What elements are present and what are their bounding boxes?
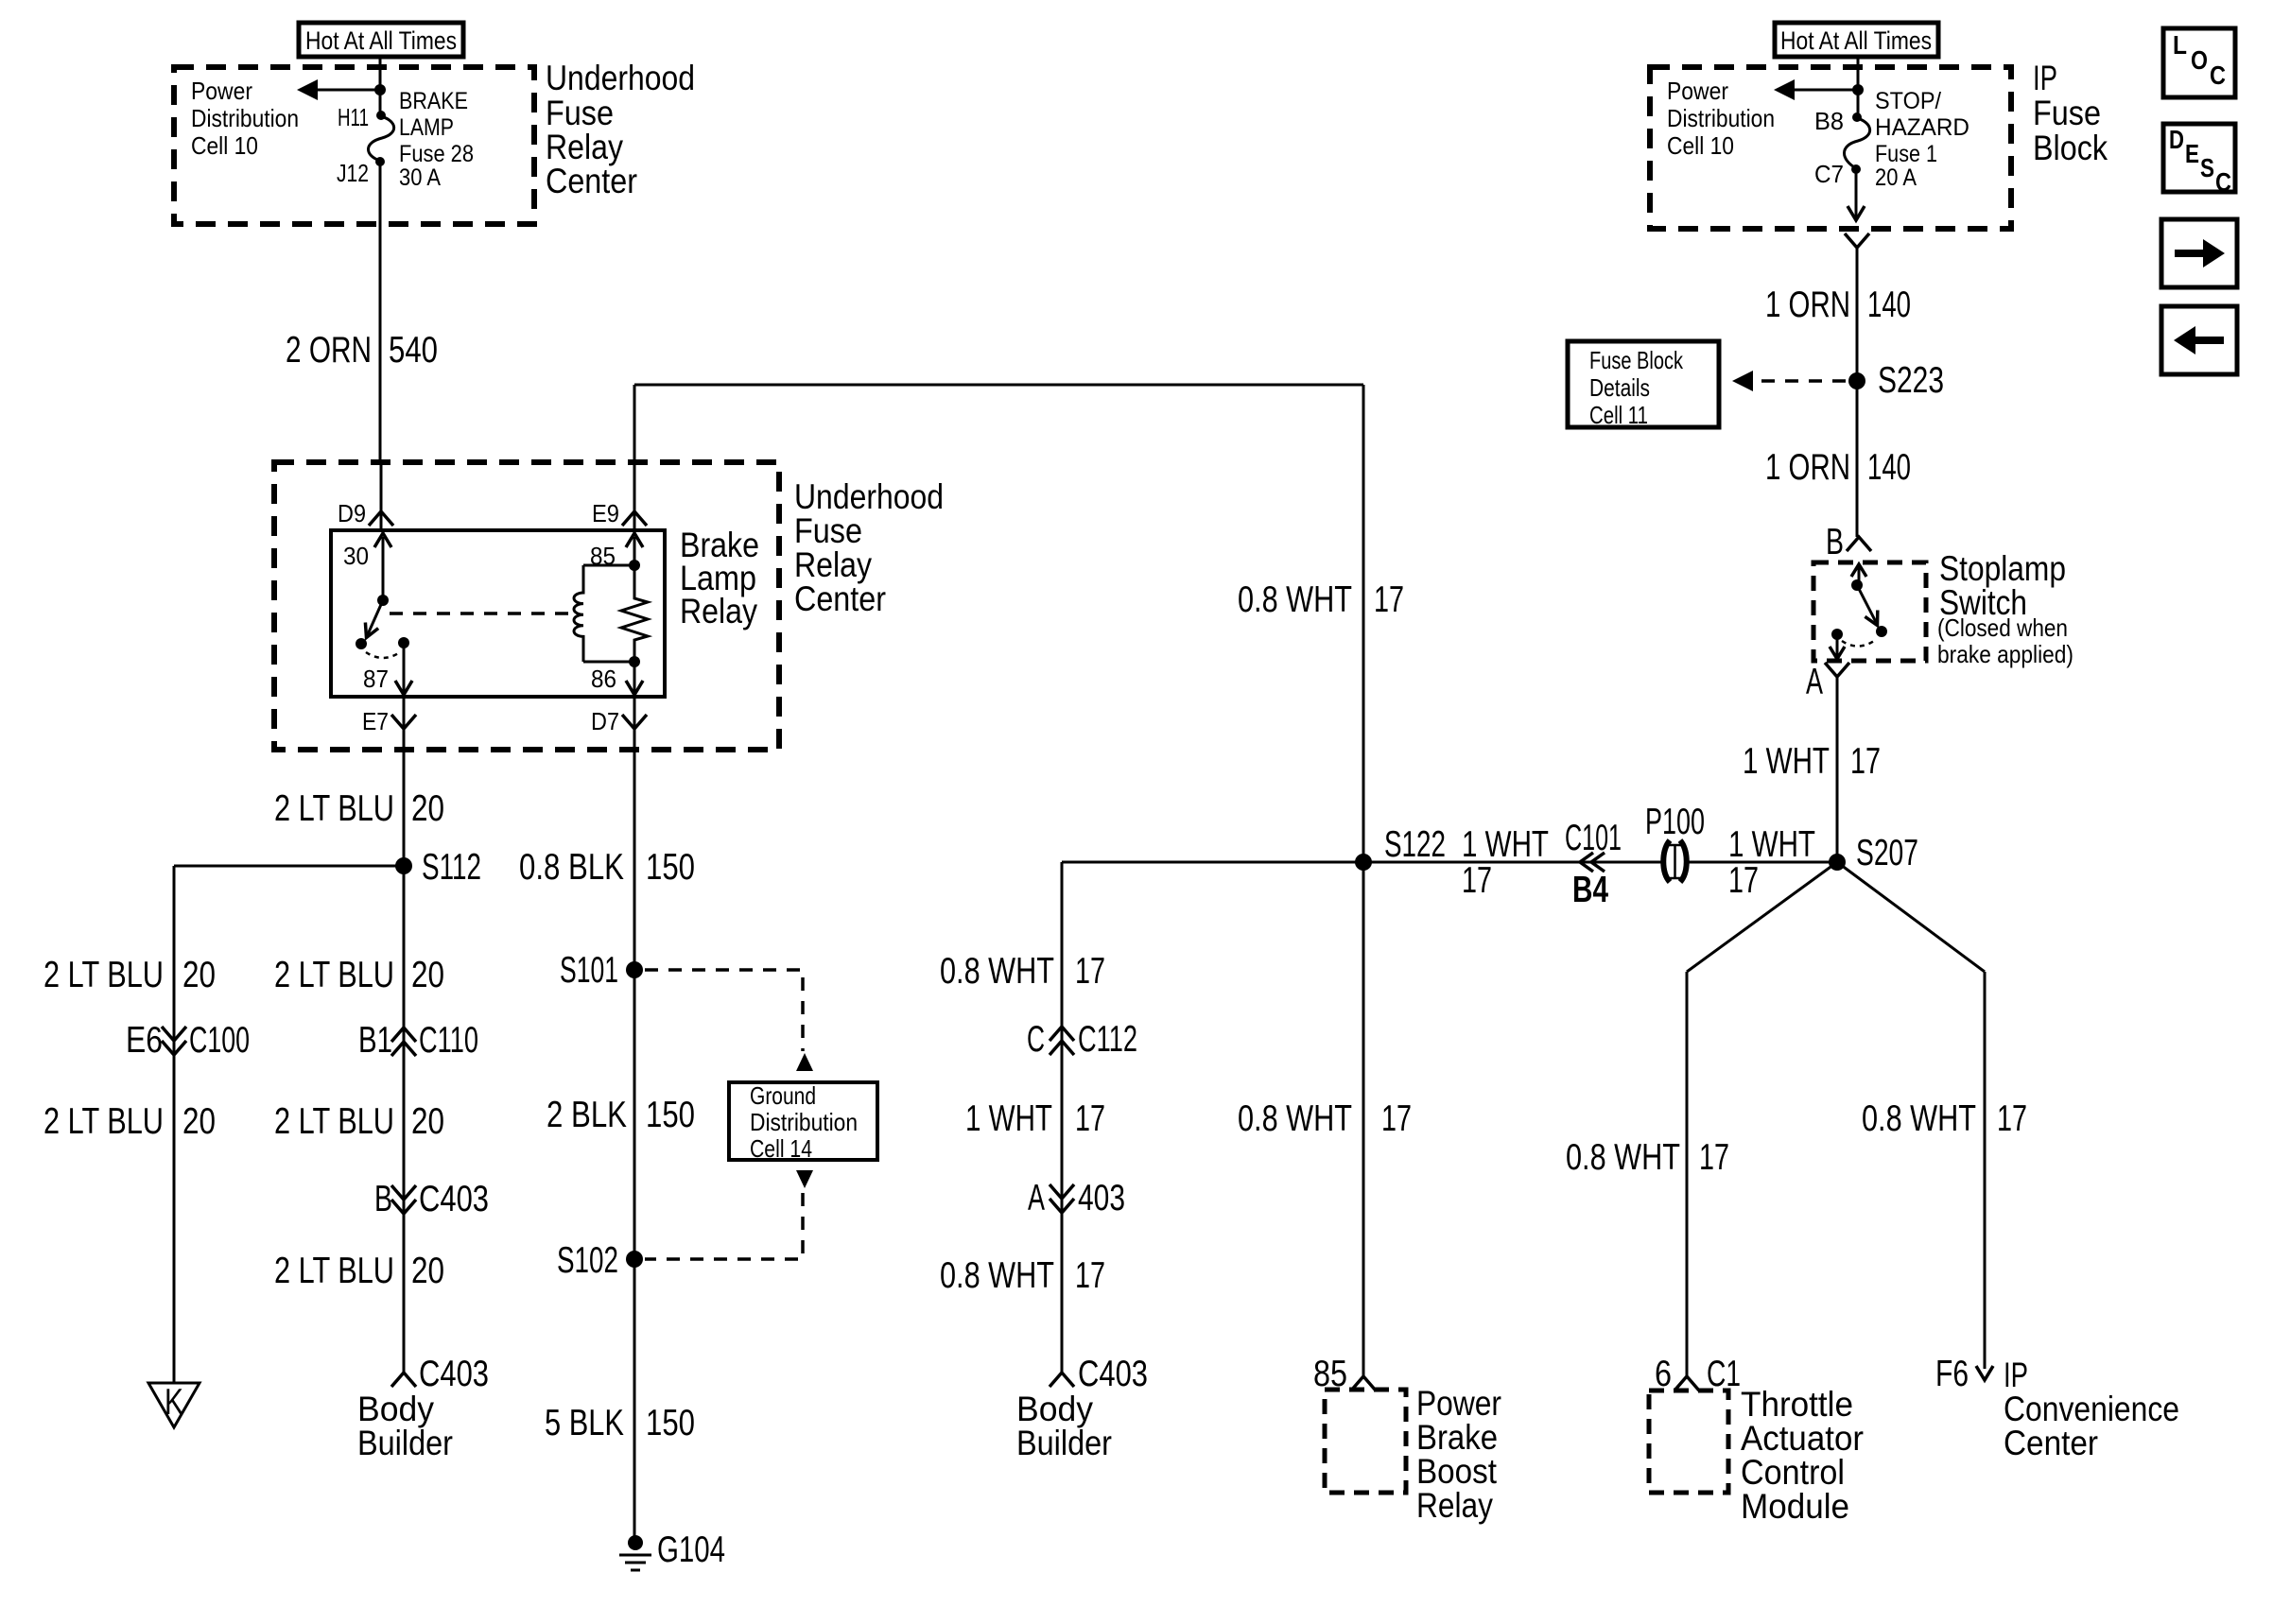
svg-text:Fuse: Fuse: [2033, 94, 2101, 132]
component label "Body Builder" (x1123): [1016, 1390, 1112, 1462]
svg-text:Fuse: Fuse: [546, 94, 614, 132]
svg-text:0.8 WHT: 0.8 WHT: [940, 951, 1054, 992]
fuse value label "BRAKE LAMP Fuse 28 30 A": [399, 88, 474, 191]
svg-text:Cell 14: Cell 14: [750, 1134, 812, 1163]
svg-text:Center: Center: [794, 579, 886, 618]
connector C100 double chevron: [162, 1027, 186, 1055]
svg-text:Hot At All Times: Hot At All Times: [1780, 26, 1932, 55]
legend box DESC: [2163, 124, 2235, 197]
label "2 LT BLU 20" left column row2: [43, 1101, 216, 1142]
dashed box: IP Fuse Block power distribution: [1650, 67, 2011, 229]
svg-text:17: 17: [1075, 1098, 1105, 1139]
svg-text:Underhood: Underhood: [546, 59, 695, 97]
relay switch armature with arrowhead: [365, 600, 383, 638]
label "Power Distribution Cell 10" (right): [1667, 77, 1775, 160]
relay switch contact dot 87: [398, 637, 409, 648]
svg-text:Fuse: Fuse: [794, 511, 862, 550]
wire E9 up and across to S122 column (0.8 WHT 17): [634, 385, 1363, 862]
power label box "Hot At All Times" (left): [299, 23, 463, 57]
svg-text:S112: S112: [422, 847, 481, 888]
stoplamp switch contact dot A: [1831, 629, 1843, 640]
junction S122 dot: [1355, 854, 1372, 871]
junction S112 dot: [395, 857, 412, 874]
dashed wire Ground Distribution box to S102: [645, 1193, 803, 1259]
svg-text:20: 20: [182, 955, 216, 995]
svg-text:30: 30: [343, 542, 369, 570]
svg-text:B: B: [1826, 522, 1844, 562]
connector chevron D7: [622, 715, 647, 729]
svg-text:Power: Power: [1416, 1384, 1501, 1423]
svg-text:HAZARD: HAZARD: [1875, 114, 1969, 141]
svg-text:P100: P100: [1645, 802, 1705, 842]
svg-text:IP: IP: [2004, 1356, 2028, 1394]
svg-text:20: 20: [411, 955, 444, 995]
arrow to Power Distribution Cell 10 (left): [297, 79, 380, 100]
svg-text:B: B: [374, 1179, 392, 1219]
pass-through grommet P100 symbol: [1663, 840, 1687, 882]
component label "Power Brake Boost Relay": [1416, 1384, 1501, 1525]
svg-text:Builder: Builder: [357, 1424, 453, 1462]
legend box arrow left: [2161, 306, 2237, 374]
svg-text:C100: C100: [189, 1020, 250, 1061]
label "0.8 WHT 17" (S122 column): [1238, 1098, 1412, 1139]
connector C403-B double chevron: [391, 1185, 416, 1214]
svg-text:C101: C101: [1565, 818, 1622, 858]
svg-text:E6: E6: [126, 1020, 163, 1061]
svg-text:Boost: Boost: [1416, 1452, 1498, 1491]
svg-text:E: E: [2185, 139, 2199, 168]
svg-text:Relay: Relay: [1416, 1486, 1493, 1525]
relay coil L1 (4 arcs): [574, 565, 583, 662]
arrowhead into IP convenience center: [1976, 1366, 1993, 1380]
wire P100 to S207: [1685, 861, 1837, 864]
wire from Hot At All Times into IP fuse block: [1857, 57, 1860, 117]
svg-text:S: S: [2200, 153, 2214, 182]
svg-text:B8: B8: [1814, 107, 1844, 135]
relay pin 30 lead with up arrow: [374, 533, 391, 600]
svg-text:Power: Power: [1667, 77, 1728, 105]
svg-text:20: 20: [411, 1101, 444, 1142]
svg-text:Fuse Block: Fuse Block: [1589, 346, 1684, 374]
svg-text:87: 87: [363, 665, 389, 693]
component label "Underhood Fuse Relay Center" (relay side): [794, 477, 944, 618]
svg-text:Distribution: Distribution: [750, 1108, 858, 1136]
connector C101 double chevron: [1580, 853, 1605, 872]
relay coil bottom wire: [583, 661, 634, 664]
svg-text:Distribution: Distribution: [1667, 104, 1775, 132]
label "1 ORN 140" (upper): [1765, 285, 1911, 325]
connector 403 double chevron: [1050, 1184, 1074, 1213]
svg-text:2 LT BLU: 2 LT BLU: [274, 1251, 394, 1291]
wire S112 branch to left and down: [174, 866, 404, 1383]
wire S122 down to relay 85: [1362, 862, 1365, 1376]
svg-text:E9: E9: [592, 499, 619, 527]
relay switch pivot dot: [377, 595, 389, 606]
component label "Body Builder" (middle): [357, 1390, 453, 1462]
junction S223 dot: [1848, 372, 1865, 389]
svg-text:C110: C110: [419, 1020, 478, 1061]
relay coil bottom junction dot: [629, 656, 640, 667]
svg-text:Body: Body: [1016, 1390, 1093, 1428]
svg-text:STOP/: STOP/: [1875, 88, 1941, 114]
svg-text:A: A: [1028, 1178, 1045, 1218]
svg-text:150: 150: [646, 1403, 695, 1443]
junction dot at power feed (left): [374, 84, 386, 95]
svg-text:Details: Details: [1589, 373, 1650, 402]
label "1 WHT 17" (x1123 row2): [965, 1098, 1105, 1139]
wire S122 horizontal run to P100: [1062, 862, 1664, 1373]
svg-text:17: 17: [1850, 741, 1881, 782]
label "2 LT BLU 20" middle column row1: [274, 955, 444, 995]
svg-text:Module: Module: [1741, 1487, 1849, 1526]
fuse F1 element (S-curve): [1845, 118, 1870, 168]
svg-text:BRAKE: BRAKE: [399, 88, 468, 114]
wire S207 diagonal to throttle actuator column: [1687, 862, 1837, 1376]
stoplamp switch travel dashed arc: [1842, 639, 1877, 647]
svg-text:1 WHT: 1 WHT: [1743, 741, 1830, 782]
svg-text:C403: C403: [1078, 1354, 1148, 1394]
svg-text:Relay: Relay: [794, 545, 872, 584]
fuse terminal dot C7: [1851, 164, 1861, 174]
svg-text:30 A: 30 A: [399, 164, 441, 191]
svg-text:D: D: [2169, 125, 2184, 154]
svg-text:2 ORN: 2 ORN: [286, 330, 372, 371]
svg-text:IP: IP: [2033, 59, 2057, 97]
svg-text:E7: E7: [362, 707, 389, 735]
svg-text:17: 17: [1699, 1137, 1729, 1178]
svg-text:20 A: 20 A: [1875, 164, 1917, 191]
wire C7 down with arrow out of fuse block: [1848, 169, 1865, 220]
relay coil top junction dot: [629, 560, 640, 571]
wire from Hot At All Times into fuse block (left): [379, 57, 382, 115]
svg-text:S122: S122: [1384, 824, 1446, 865]
dashed box: Stoplamp Switch: [1813, 562, 1926, 661]
power label box "Hot At All Times" (right): [1775, 23, 1938, 57]
svg-text:17: 17: [1462, 860, 1492, 901]
svg-text:20: 20: [411, 1251, 444, 1291]
label "0.8 WHT 17" (x1123 row3): [940, 1255, 1105, 1296]
svg-text:0.8 WHT: 0.8 WHT: [1238, 579, 1352, 620]
svg-text:17: 17: [1374, 579, 1404, 620]
svg-text:Convenience: Convenience: [2004, 1390, 2179, 1428]
label "1 ORN 140" (lower): [1765, 447, 1911, 488]
relay mechanical link dashed line: [390, 612, 570, 615]
relay pin 87 lead with down arrow: [395, 643, 412, 695]
svg-text:Fuse 1: Fuse 1: [1875, 141, 1937, 167]
dashed box: Power Brake Boost Relay: [1325, 1390, 1406, 1493]
label "0.8 BLK 150": [519, 847, 695, 888]
svg-text:C403: C403: [419, 1179, 489, 1219]
stoplamp switch pivot dot: [1851, 579, 1863, 591]
ground G104 symbol: [619, 1535, 651, 1570]
relay resistor R1 (zigzag): [621, 565, 648, 662]
svg-text:17: 17: [1075, 951, 1105, 992]
label "0.8 WHT 17" (throttle column): [1566, 1137, 1729, 1178]
wire E7 to S112 (2 LT BLU 20): [403, 697, 406, 866]
svg-text:C: C: [2210, 60, 2226, 90]
svg-text:Builder: Builder: [1016, 1424, 1112, 1462]
svg-text:Stoplamp: Stoplamp: [1939, 549, 2066, 588]
connector chevron 6 C1: [1674, 1376, 1699, 1391]
reference box "Ground Distribution Cell 14": [729, 1081, 877, 1163]
connector chevron A: [1825, 663, 1849, 677]
svg-text:20: 20: [411, 788, 444, 829]
wire 1 WHT 17 stoplamp to S207: [1836, 677, 1839, 862]
junction S207 dot: [1829, 854, 1846, 871]
label "2 LT BLU 20" above S112: [274, 788, 444, 829]
dashed wire S101 to Ground Distribution box: [645, 970, 803, 1051]
fuse terminal dot J12: [375, 157, 385, 166]
svg-text:150: 150: [646, 847, 695, 888]
label "2 LT BLU 20" middle column row2: [274, 1101, 444, 1142]
legend box arrow right: [2161, 219, 2237, 287]
svg-text:0.8 WHT: 0.8 WHT: [1862, 1098, 1976, 1139]
svg-text:B1: B1: [358, 1020, 392, 1061]
dashed box: Underhood Fuse Relay Center power distribution (left): [174, 67, 534, 224]
svg-text:2 LT BLU: 2 LT BLU: [274, 955, 394, 995]
svg-text:J12: J12: [337, 159, 369, 187]
svg-text:Body: Body: [357, 1390, 434, 1428]
svg-text:C: C: [1027, 1019, 1045, 1060]
svg-text:D7: D7: [591, 707, 619, 735]
svg-text:H11: H11: [338, 103, 369, 131]
svg-text:Power: Power: [191, 77, 252, 105]
fuse terminal dot H11: [376, 111, 386, 120]
component label "Brake Lamp Relay": [680, 526, 759, 631]
svg-text:Actuator: Actuator: [1741, 1419, 1864, 1458]
junction S101 dot: [626, 961, 643, 978]
svg-text:1 WHT: 1 WHT: [1728, 824, 1815, 865]
svg-text:1 WHT: 1 WHT: [1462, 824, 1549, 865]
connector chevron below IP fuse block: [1845, 233, 1869, 248]
connector chevron B: [1847, 537, 1871, 551]
wire D7 down to G104 (BLK 150): [633, 697, 636, 1536]
dashed arrow S223 to Fuse Block Details box: [1732, 371, 1846, 391]
connector C112 double chevron: [1050, 1027, 1074, 1055]
svg-text:Cell 10: Cell 10: [191, 131, 258, 160]
connector chevron E9: [622, 511, 647, 526]
label "0.8 WHT 17" (x1123 row1): [940, 951, 1105, 992]
svg-text:403: 403: [1078, 1178, 1125, 1218]
svg-text:Distribution: Distribution: [191, 104, 299, 132]
svg-text:G104: G104: [657, 1529, 725, 1570]
svg-text:86: 86: [591, 665, 616, 693]
svg-text:Relay: Relay: [546, 128, 623, 166]
arrow to Power Distribution Cell 10 (right): [1774, 79, 1858, 100]
svg-text:(Closed when: (Closed when: [1937, 613, 2068, 642]
svg-text:Ground: Ground: [750, 1081, 816, 1110]
relay switch travel dashed arc: [366, 652, 400, 658]
svg-text:2 LT BLU: 2 LT BLU: [274, 788, 394, 829]
connector chevron D9: [369, 511, 393, 526]
svg-text:150: 150: [646, 1095, 695, 1135]
arrow from ground distribution (bottom, down triangle): [796, 1170, 813, 1188]
svg-text:S223: S223: [1878, 360, 1944, 401]
svg-text:Hot At All Times: Hot At All Times: [305, 26, 457, 55]
svg-text:17: 17: [1381, 1098, 1412, 1139]
svg-text:2 LT BLU: 2 LT BLU: [43, 955, 164, 995]
svg-text:Throttle: Throttle: [1741, 1385, 1853, 1424]
svg-text:C112: C112: [1078, 1019, 1137, 1060]
svg-text:S102: S102: [557, 1240, 618, 1281]
svg-text:0.8 BLK: 0.8 BLK: [519, 847, 624, 888]
fuse terminal dot B8: [1852, 112, 1862, 122]
svg-text:140: 140: [1867, 285, 1911, 325]
svg-text:C7: C7: [1814, 160, 1844, 188]
svg-text:B4: B4: [1572, 870, 1608, 910]
component label "IP Fuse Block": [2033, 59, 2108, 167]
reference box "Fuse Block Details Cell 11": [1568, 341, 1719, 429]
wire S207 diagonal to IP convenience column: [1837, 862, 1985, 1369]
label "0.8 WHT 17" (upper): [1238, 579, 1404, 620]
svg-text:17: 17: [1728, 860, 1759, 901]
legend box LOC: [2163, 28, 2235, 97]
svg-text:L: L: [2173, 30, 2187, 60]
stoplamp switch pin B lead with up arrow: [1851, 564, 1866, 585]
fuse value label "STOP/ HAZARD Fuse 1 20 A": [1875, 88, 1969, 191]
wire 1 ORN 140 S223 to stoplamp switch: [1856, 381, 1859, 537]
svg-text:LAMP: LAMP: [399, 114, 454, 141]
connector chevron E7: [391, 715, 416, 729]
svg-text:540: 540: [389, 330, 438, 371]
relay coil top wire: [583, 564, 634, 567]
svg-text:C403: C403: [419, 1354, 489, 1394]
svg-text:Center: Center: [2004, 1424, 2098, 1462]
svg-text:Underhood: Underhood: [794, 477, 944, 516]
component label "Underhood Fuse Relay Center" (top): [546, 59, 695, 200]
svg-text:O: O: [2191, 45, 2208, 75]
label "5 BLK 150": [545, 1403, 695, 1443]
label "1 WHT 17" above S207: [1743, 741, 1881, 782]
svg-text:2 LT BLU: 2 LT BLU: [43, 1101, 164, 1142]
svg-text:brake applied): brake applied): [1937, 640, 2073, 668]
svg-text:Control: Control: [1741, 1453, 1845, 1492]
relay pin 86 lead with down arrow: [626, 662, 643, 695]
svg-text:2 BLK: 2 BLK: [547, 1095, 627, 1135]
junction S102 dot: [626, 1251, 643, 1268]
relay U1 "Brake Lamp Relay" outline box: [331, 530, 665, 697]
svg-text:Brake: Brake: [1416, 1418, 1498, 1457]
svg-text:Fuse 28: Fuse 28: [399, 141, 474, 167]
svg-text:A: A: [1806, 662, 1823, 702]
svg-text:Relay: Relay: [680, 592, 757, 631]
svg-text:K: K: [165, 1382, 183, 1423]
svg-text:Cell 11: Cell 11: [1589, 401, 1648, 429]
dashed box: Throttle Actuator Control Module: [1649, 1391, 1728, 1493]
junction dot at power feed (right): [1852, 84, 1864, 95]
svg-text:17: 17: [1075, 1255, 1105, 1296]
svg-text:F6: F6: [1935, 1354, 1969, 1394]
svg-text:0.8 WHT: 0.8 WHT: [940, 1255, 1054, 1296]
wire 1 ORN 140 to S223: [1856, 248, 1859, 381]
label "2 LT BLU 20" middle column row3: [274, 1251, 444, 1291]
svg-text:1 ORN: 1 ORN: [1765, 447, 1850, 488]
stoplamp switch contact dot (right): [1876, 626, 1887, 637]
connector chevron C403 end (x1123): [1050, 1373, 1074, 1387]
dashed box: Underhood Fuse Relay Center (relay): [274, 462, 779, 750]
svg-text:Block: Block: [2033, 129, 2108, 167]
stoplamp switch armature with arrowhead: [1857, 585, 1878, 626]
connector chevron C403 end (middle): [391, 1373, 416, 1387]
svg-text:0.8 WHT: 0.8 WHT: [1566, 1137, 1680, 1178]
relay switch contact dot (left): [356, 638, 367, 649]
arrow into ground distribution (top, up triangle): [796, 1053, 813, 1071]
wire 2 ORN 540 from fuse J12 down to relay: [379, 162, 382, 462]
svg-text:2 LT BLU: 2 LT BLU: [274, 1101, 394, 1142]
label "2 ORN 540": [286, 330, 438, 371]
svg-text:D9: D9: [338, 499, 366, 527]
component label "Throttle Actuator Control Module": [1741, 1385, 1864, 1526]
svg-text:1 ORN: 1 ORN: [1765, 285, 1850, 325]
svg-text:S207: S207: [1856, 833, 1918, 873]
connector C110 double chevron: [391, 1028, 416, 1056]
label "2 BLK 150": [547, 1095, 695, 1135]
wire S112 down middle column: [403, 866, 406, 1373]
svg-text:140: 140: [1867, 447, 1911, 488]
label "0.8 WHT 17" (IP convenience column): [1862, 1098, 2027, 1139]
label "1 WHT 17" (right of P100): [1728, 824, 1815, 901]
svg-text:Center: Center: [546, 162, 637, 200]
component label "Stoplamp Switch (Closed when brake applied)": [1937, 549, 2073, 668]
label "1 WHT 17" (left of C101): [1462, 824, 1549, 901]
component label "IP Convenience Center": [2004, 1356, 2179, 1462]
relay pin 85 lead with up arrow: [626, 533, 643, 565]
svg-text:0.8 WHT: 0.8 WHT: [1238, 1098, 1352, 1139]
svg-text:C: C: [2215, 167, 2231, 197]
label "2 LT BLU 20" left column row1: [43, 955, 216, 995]
stoplamp switch pin A lead with down arrow: [1830, 634, 1845, 659]
svg-text:S101: S101: [560, 950, 618, 991]
fuse F28 element (S-curve): [369, 116, 394, 161]
svg-text:20: 20: [182, 1101, 216, 1142]
label "Power Distribution Cell 10" (left): [191, 77, 299, 160]
svg-text:17: 17: [1997, 1098, 2027, 1139]
svg-text:Cell 10: Cell 10: [1667, 131, 1734, 160]
svg-text:1 WHT: 1 WHT: [965, 1098, 1052, 1139]
svg-text:5 BLK: 5 BLK: [545, 1403, 624, 1443]
ground symbol K (triangle): [148, 1382, 200, 1427]
connector chevron 85: [1351, 1376, 1376, 1391]
